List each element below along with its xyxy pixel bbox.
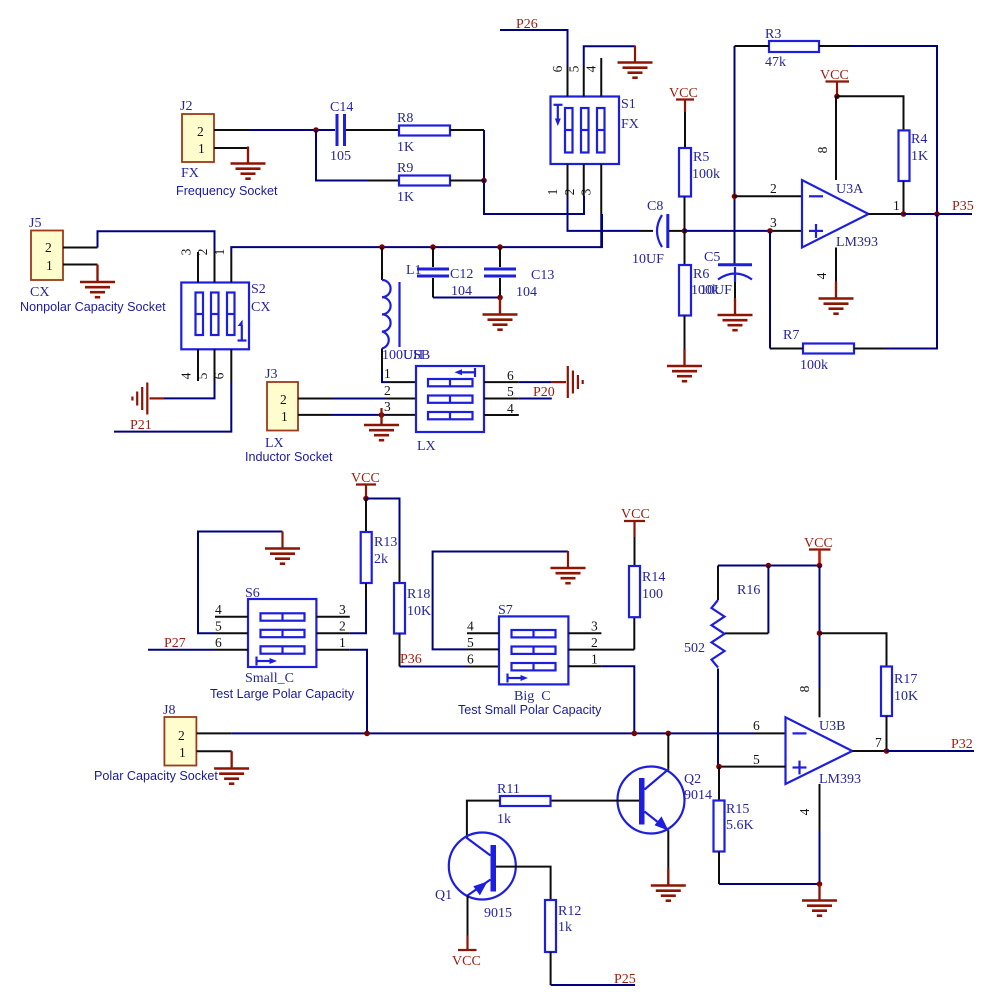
svg-text:R13: R13 [374,535,397,550]
wire S7 pin5 to ground [433,552,568,650]
wire LX pin6 to P20 port [519,381,566,383]
node R16 wiper top [766,563,772,569]
svg-text:5: 5 [753,752,760,767]
svg-text:1: 1 [339,635,346,650]
svg-text:R7: R7 [783,328,799,343]
svg-text:C5: C5 [704,250,720,265]
svg-text:6: 6 [212,372,227,379]
node pin5/R15 junction [716,764,722,770]
LX pin 6 [484,368,519,383]
wire Q2 base / R11 right [551,800,640,802]
svg-text:1k: 1k [497,812,511,827]
power port P20 symbol [568,366,583,398]
svg-text:8: 8 [815,146,830,153]
wire C8 right to node [669,230,685,232]
wire R7 left to pin3 column [770,231,803,349]
svg-text:R12: R12 [558,904,581,919]
ground below R6 [667,349,702,381]
wire J5 pin1 to ground [63,265,98,282]
svg-text:Big C: Big C [514,689,551,704]
svg-text:Inductor Socket: Inductor Socket [245,450,333,464]
wire R11 left to Q1 collector [467,801,500,839]
wire S2 pin5 to P21 port [150,381,215,398]
wire J5 pin2 to S2 pin2 [63,231,215,252]
wire C12 bottom to C13 bottom [433,297,500,299]
S2 pin 6 [212,349,232,381]
wire R3 right to output column [819,46,937,214]
svg-text:R6: R6 [693,267,709,282]
S1 pin 2 [562,164,584,196]
wire Q1 base to R12 [496,867,551,900]
node pin4 ground junction [817,881,823,887]
node output/feedback column [934,211,940,217]
svg-text:100k: 100k [800,358,828,373]
resistor R8 [397,111,450,155]
svg-text:9015: 9015 [484,906,512,921]
svg-text:LX: LX [417,439,436,454]
svg-text:6: 6 [550,65,565,72]
wire node to R17 [820,633,887,666]
capacitor C5 polarized [700,250,752,314]
resistor R12 [545,900,581,985]
wire VCC node to R4 [837,96,904,130]
svg-text:5: 5 [507,384,514,399]
svg-text:1: 1 [384,366,391,381]
svg-text:P35: P35 [952,199,974,214]
wire VCC node to R18 [366,499,400,584]
svg-text:6: 6 [753,718,760,733]
S6 pin 4 unconnected [215,602,248,617]
svg-text:2: 2 [770,181,777,196]
svg-text:2: 2 [280,392,287,407]
ground at U3A pin4 [819,282,854,314]
wire P26 to S1 pin6 [500,30,568,66]
node bus S6 branch [364,731,370,737]
svg-text:R4: R4 [911,132,927,147]
resistor R11 [497,782,551,827]
svg-text:LM393: LM393 [819,772,861,787]
wire S1 pin1 to C8 [568,196,654,231]
U3B output pin 7 [852,735,886,751]
node R17 branch [817,630,823,636]
svg-text:R9: R9 [397,161,413,176]
ground at S1 pin5 [618,46,653,78]
svg-text:J2: J2 [180,99,192,114]
svg-text:7: 7 [875,735,882,750]
capacitor C8 [632,199,668,267]
U3B pin 5 [719,752,786,767]
svg-text:1: 1 [545,189,560,196]
node pin2 junction [732,194,738,200]
potentiometer R16 [684,566,768,767]
node C12 top [430,244,436,250]
svg-text:5: 5 [467,635,474,650]
S1 pin 5 [567,65,584,96]
svg-text:Q2: Q2 [684,772,701,787]
node bus Q2 collector [666,731,672,737]
svg-text:10K: 10K [407,604,431,619]
op-amp U3B [786,717,862,787]
S6 pin 3 unconnected [316,602,349,617]
svg-text:P32: P32 [951,737,973,752]
wire L1 bottom to LX pin1 [382,348,416,382]
svg-text:100k: 100k [692,167,720,182]
svg-text:VCC: VCC [621,507,650,522]
ground above S6 [265,532,300,564]
svg-text:S7: S7 [498,603,513,618]
U3A pin 4 [814,248,836,298]
S1 pin 3 [579,164,602,214]
node junction C14 left [313,127,319,133]
svg-text:CX: CX [251,300,270,315]
wire Q1 emitter to VCC [467,896,469,951]
LX pin 5 [484,384,519,399]
switch S6 [245,586,316,667]
node VCC/R13/R18 [363,496,369,502]
svg-text:R17: R17 [894,672,917,687]
S2 pin 5 [195,349,215,381]
S6 pin 5 [215,619,248,634]
svg-text:2: 2 [591,635,598,650]
svg-text:4: 4 [584,65,599,72]
connector J3 [265,367,298,451]
svg-text:J5: J5 [29,216,41,231]
ground below U3B [818,884,820,900]
main bus wire [382,214,602,247]
power VCC above R13 [351,471,380,499]
S6 pin 6 [215,635,248,650]
svg-text:3: 3 [384,399,391,414]
svg-text:C8: C8 [647,199,663,214]
svg-text:2k: 2k [374,552,388,567]
svg-text:Small_C: Small_C [245,671,294,686]
S7 pin 1 [568,652,601,667]
svg-text:3: 3 [179,248,194,255]
svg-text:3: 3 [579,188,594,195]
svg-text:6: 6 [215,635,222,650]
node pin3/R7 junction [767,228,773,234]
svg-text:VCC: VCC [452,954,481,969]
wire R8 right down to R9 node [450,130,484,181]
svg-text:8: 8 [797,685,812,692]
wire output to P32 [887,750,975,752]
power VCC below Q1 inverted [452,950,481,969]
connector J2 [180,99,214,181]
wire J2 pin1 to ground [214,148,248,163]
wire S7 pin1 down to bus [601,666,634,733]
U3A output pin 1 wire [869,198,904,214]
svg-text:C13: C13 [531,268,554,283]
S6 pin 2 [316,619,349,634]
S2 pin 2 [195,249,215,283]
svg-text:S6: S6 [245,586,260,601]
ground at Q2 emitter [651,869,686,901]
resistor R7 [783,328,854,373]
wire R9 node to S1 pin2 [450,181,584,215]
svg-text:5: 5 [215,619,222,634]
wire R12 to net P25 [551,984,635,986]
svg-text:2: 2 [339,619,346,634]
svg-text:R16: R16 [737,583,760,598]
wire S2 pin1 to main bus [231,247,382,252]
svg-text:R11: R11 [497,782,520,797]
wire junction down to R9 [316,130,399,181]
svg-text:R15: R15 [726,802,749,817]
node L1 top [379,244,385,250]
S7 pin 5 [467,635,499,650]
svg-text:2: 2 [45,240,52,255]
capacitor C14 [330,100,353,164]
resistor R15 [714,767,754,884]
wire R7 right stub [854,348,885,350]
S2 pin 4 unconnected [179,349,199,381]
resistor R5 [679,112,720,231]
ground below C5 [718,298,753,330]
svg-text:R14: R14 [642,570,665,585]
svg-text:Q1: Q1 [435,888,452,903]
svg-text:1K: 1K [397,190,414,205]
inductor L1 [382,247,423,363]
capacitor C12 [417,247,473,299]
switch S1 [551,97,639,165]
svg-text:5.6K: 5.6K [726,818,754,833]
wire S6 pin5 to ground [198,532,283,634]
svg-text:3: 3 [770,215,777,230]
svg-text:Test Large Polar Capacity: Test Large Polar Capacity [210,687,355,701]
svg-text:1: 1 [893,198,900,213]
svg-text:9014: 9014 [684,788,712,803]
wire feedback column to R7 [885,214,937,349]
wire LX pin5 net P20 [519,398,552,400]
U3A pin 8 [815,96,836,180]
svg-text:104: 104 [516,285,537,300]
power VCC above U3A [820,68,849,96]
svg-text:J8: J8 [163,703,175,718]
wire J3 pin1 to LX pin3 [298,414,416,416]
svg-text:6: 6 [507,368,514,383]
svg-text:6: 6 [467,652,474,667]
S1 pin 6 [550,65,568,96]
wire C14 to R8 [346,129,399,131]
switch LX [416,366,484,454]
power VCC above R5 [669,86,698,112]
node output/R17 [884,748,890,754]
wire VCC rail to R16 [718,565,820,567]
resistor R17 [881,667,918,752]
resistor R3 [765,27,819,70]
svg-text:4: 4 [215,602,222,617]
svg-text:U3A: U3A [836,182,864,197]
ground at J8 pin1 [214,752,249,784]
svg-text:S1: S1 [621,97,636,112]
power VCC above R14 [621,507,650,537]
power port P21 symbol [132,383,147,415]
svg-text:1: 1 [46,258,53,273]
S6 pin 1 [316,635,349,650]
resistor R9 [397,161,450,205]
S1 pin 1 [545,164,568,196]
svg-text:502: 502 [684,641,705,656]
wire pin8 column [819,566,821,718]
svg-text:1: 1 [591,652,598,667]
LX pin 4 unconnected [484,401,519,416]
node R9 right junction [481,178,487,184]
switch S7 [498,603,568,684]
svg-text:10K: 10K [894,689,918,704]
S7 pin 2 [568,635,634,650]
svg-text:J3: J3 [265,367,277,382]
wire S1 pin3 to main bus [600,214,602,247]
wire ground bus [719,883,820,885]
switch S2 [181,282,270,349]
connector J5 [29,216,63,300]
ground below J3 wire [364,408,399,440]
op-amp U3A [802,180,878,250]
svg-text:47k: 47k [765,55,786,70]
S2 pin 1 [212,249,231,283]
wire P36 net R18 to S7 pin6 [400,666,500,668]
svg-text:1k: 1k [558,920,572,935]
capacitor C13 [484,247,554,300]
svg-text:1: 1 [179,745,186,760]
svg-text:CX: CX [30,285,49,300]
wire pin3 net [685,230,803,232]
svg-text:S2: S2 [251,282,266,297]
svg-text:Test Small Polar Capacity: Test Small Polar Capacity [458,703,602,717]
wire Q2 collector up [667,733,669,768]
ground at J5 pin1 [80,265,115,297]
svg-text:Polar Capacity Socket: Polar Capacity Socket [94,769,218,783]
transistor Q2 [618,767,713,834]
svg-text:3: 3 [339,602,346,617]
wire J2 pin2 to C14 [214,129,335,131]
svg-text:C14: C14 [330,100,353,115]
svg-text:5: 5 [567,65,582,72]
U3B pin 4 [797,784,820,884]
transistor Q1 [435,833,516,922]
svg-text:2: 2 [384,383,391,398]
svg-text:R5: R5 [693,150,709,165]
wire net P27 [148,649,215,651]
wire pin2 stub [735,195,803,197]
wire R3 left vertical / C5 branch [734,46,736,264]
node VCC junction [817,563,823,569]
svg-text:P36: P36 [400,652,422,667]
resistor R6 [679,231,719,365]
svg-text:Frequency Socket: Frequency Socket [176,184,278,198]
svg-text:USB: USB [403,348,430,363]
svg-text:2: 2 [195,249,210,256]
wire Q2 emitter to ground [667,830,669,884]
resistor R14 [629,537,665,617]
svg-text:100: 100 [642,587,663,602]
wire C13 bottom to ground [499,298,501,314]
svg-text:1: 1 [198,141,205,156]
svg-text:FX: FX [621,117,639,132]
ground below C13 [483,298,518,330]
svg-text:U3B: U3B [819,719,845,734]
wire node to ground [380,415,382,425]
wire S1 pin5 to ground [584,46,635,66]
resistor R13 [361,499,398,601]
svg-text:4: 4 [797,808,812,815]
wire S6 pin1 down to bus [350,650,367,734]
svg-text:1: 1 [281,409,288,424]
wire S7 pin2 up to R14 [633,617,635,649]
svg-text:P27: P27 [164,636,186,651]
svg-text:C12: C12 [450,267,473,282]
svg-text:4: 4 [814,272,829,279]
resistor R4 [899,130,929,214]
node C13 top [497,244,503,250]
svg-text:R8: R8 [397,111,413,126]
svg-text:4: 4 [467,619,474,634]
svg-text:1K: 1K [397,140,414,155]
node C13 bottom junction [497,295,503,301]
svg-text:Nonpolar Capacity Socket: Nonpolar Capacity Socket [20,300,166,314]
power VCC above U3B [804,536,833,566]
svg-text:10UF: 10UF [700,283,732,298]
svg-text:3: 3 [591,619,598,634]
ground above S7 [551,551,586,583]
svg-text:P20: P20 [533,385,555,400]
svg-text:4: 4 [507,401,514,416]
wire output to P35 [904,213,973,215]
wire R13 bottom to S6 pin2 [350,600,366,633]
svg-text:R3: R3 [765,27,781,42]
svg-text:FX: FX [181,166,199,181]
wire R3 left [735,45,770,47]
svg-text:10UF: 10UF [632,252,664,267]
wire S2 pin6 stub left [114,381,231,432]
resistor R18 [394,583,431,667]
connector J8 [163,703,196,766]
S7 pin 4 unconnected [467,619,499,634]
wire J8 pin2 bus [197,732,786,734]
node VCC/R4/pin8 junction [834,94,840,100]
node output/R4 [901,211,907,217]
node C8/R5/R6 junction [682,228,688,234]
svg-text:1K: 1K [911,149,928,164]
ground at J2 pin1 [231,147,266,179]
svg-text:5: 5 [195,372,210,379]
svg-text:2: 2 [562,189,577,196]
S1 pin 4 unconnected [584,58,602,97]
svg-text:4: 4 [179,372,194,379]
S7 pin 3 unconnected [568,619,601,634]
node LX pin3 junction [379,412,385,418]
svg-text:LM393: LM393 [836,235,878,250]
svg-text:R18: R18 [407,587,430,602]
wire J8 pin1 to ground [197,751,232,767]
S2 pin 3 unconnected [179,248,199,282]
svg-text:105: 105 [330,149,351,164]
node bus S7 branch [632,731,638,737]
svg-text:1: 1 [212,249,227,256]
svg-text:2: 2 [197,124,204,139]
svg-text:P25: P25 [614,972,636,987]
wire J3 pin2 to LX pin2 [298,398,416,400]
svg-text:2: 2 [178,728,185,743]
svg-text:LX: LX [265,436,284,451]
